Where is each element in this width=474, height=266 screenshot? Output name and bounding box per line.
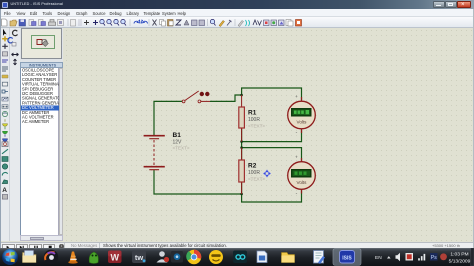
svg-text:R1: R1	[248, 110, 257, 117]
svg-text:B1: B1	[173, 132, 182, 139]
svg-text:1:03 PM: 1:03 PM	[450, 252, 468, 258]
svg-text:A: A	[2, 187, 7, 194]
svg-text:5/13/2009: 5/13/2009	[449, 258, 471, 264]
svg-text:<TEXT>: <TEXT>	[173, 146, 190, 151]
svg-text:R2: R2	[248, 163, 257, 170]
svg-text:Ps: Ps	[431, 255, 437, 261]
svg-text:W: W	[111, 253, 120, 263]
svg-text:<TEXT>: <TEXT>	[248, 124, 265, 129]
svg-text:100R: 100R	[248, 170, 260, 176]
svg-text:tw: tw	[135, 253, 143, 262]
svg-text:Volts: Volts	[297, 120, 308, 125]
svg-text:+: +	[295, 155, 298, 160]
svg-text:<TEXT>: <TEXT>	[248, 177, 265, 182]
svg-text:100R: 100R	[248, 117, 260, 123]
svg-text:ISIS: ISIS	[342, 255, 352, 261]
svg-text:+: +	[295, 94, 298, 99]
svg-text:EN: EN	[375, 255, 382, 261]
svg-text:Volts: Volts	[297, 180, 308, 185]
